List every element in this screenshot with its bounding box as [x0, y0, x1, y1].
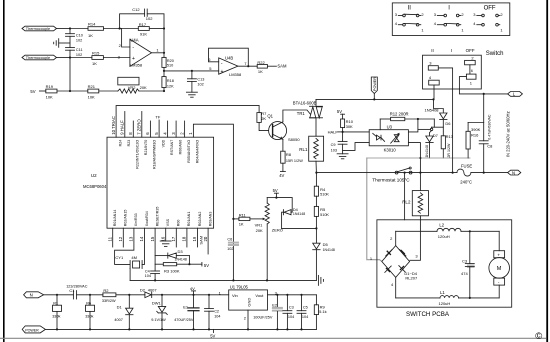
- svg-text:R11: R11: [239, 212, 247, 217]
- capacitor C4 104: [145, 270, 160, 282]
- svg-text:R01/AN1: R01/AN1: [187, 212, 191, 227]
- POWER rail: [46, 328, 317, 330]
- svg-text:R3 100K: R3 100K: [164, 269, 180, 274]
- svg-text:OFF: OFF: [484, 6, 496, 12]
- svg-text:K3010: K3010: [384, 147, 397, 152]
- svg-text:R06/AN6: R06/AN6: [178, 140, 182, 155]
- svg-text:C6: C6: [227, 237, 232, 241]
- capacitor E2 100UF/25V (grayed): [253, 295, 282, 330]
- svg-text:13: 13: [129, 236, 134, 241]
- svg-text:240°C: 240°C: [460, 179, 472, 184]
- ground (sideways, between C10 and C11): [54, 39, 70, 48]
- connector POWER (vertical flag): [371, 77, 377, 100]
- triac TR1 BTA16-600B: [293, 99, 323, 136]
- regulator U1 79L05: [219, 284, 278, 310]
- svg-text:15R 1/2W: 15R 1/2W: [286, 159, 303, 163]
- thermostat rail left: [316, 172, 457, 174]
- mains rail to C1: [44, 294, 74, 296]
- wire U4B feedback loop: [209, 48, 249, 66]
- svg-text:D7: D7: [433, 133, 439, 138]
- svg-text:C8: C8: [487, 144, 493, 149]
- pin 19 stub: [197, 228, 199, 247]
- relay coil RL1: [299, 136, 323, 161]
- svg-text:R00: R00: [177, 220, 181, 227]
- switch position table box: [392, 3, 510, 36]
- svg-text:5V: 5V: [337, 109, 342, 114]
- pin 2 stub: [184, 121, 186, 137]
- svg-text:120uH: 120uH: [439, 301, 451, 306]
- svg-text:510K: 510K: [320, 213, 329, 217]
- svg-text:CY1: CY1: [115, 255, 124, 260]
- transistor Q1 S8050: [267, 114, 300, 142]
- svg-text:C13: C13: [197, 78, 204, 82]
- svg-text:R01/AN14: R01/AN14: [113, 210, 117, 227]
- svg-text:R16: R16: [471, 133, 479, 138]
- pin 9 HALF stub: [124, 112, 126, 138]
- svg-text:104: 104: [288, 315, 294, 319]
- capacitor C1 123/280VAC: [66, 284, 103, 299]
- svg-text:C12: C12: [132, 7, 140, 12]
- svg-text:DW1: DW1: [152, 301, 162, 306]
- svg-text:+: +: [132, 56, 135, 62]
- ground (C13): [186, 92, 197, 97]
- pin 11 stub: [112, 228, 114, 247]
- svg-text:11: 11: [107, 236, 112, 241]
- svg-text:RL1: RL1: [299, 147, 308, 152]
- svg-text:R15: R15: [92, 50, 100, 55]
- svg-text:R5: R5: [320, 207, 326, 212]
- svg-text:1K: 1K: [258, 69, 263, 74]
- svg-text:R23: R23: [127, 140, 131, 147]
- svg-text:MC68P0604: MC68P0604: [83, 184, 107, 189]
- capacitor C8 0.47uF/630VAC: [479, 93, 493, 174]
- svg-text:R18/AN9/PWM1O: R18/AN9/PWM1O: [153, 140, 157, 169]
- wire switch feed into PCBA: [404, 173, 406, 220]
- svg-text:17: 17: [171, 236, 176, 241]
- page right border line: [546, 0, 548, 342]
- relay coil RL2: [402, 158, 428, 216]
- svg-text:103: 103: [331, 148, 337, 152]
- net label HALF: [328, 129, 343, 134]
- switch contact 2: [465, 56, 476, 74]
- capacitor C12 (feedback): [120, 7, 164, 53]
- U3 internal LED: [373, 133, 385, 141]
- resistor R22: [257, 60, 276, 74]
- svg-text:12: 12: [118, 236, 123, 241]
- svg-text:104: 104: [214, 314, 220, 318]
- svg-text:10K: 10K: [88, 94, 95, 99]
- svg-text:9.1V/1W: 9.1V/1W: [151, 318, 166, 322]
- svg-text:18: 18: [182, 236, 187, 241]
- svg-text:10K: 10K: [46, 94, 53, 99]
- capacitor C11: [66, 48, 83, 58]
- svg-text:1N4148: 1N4148: [293, 212, 305, 216]
- net label 5V (divider): [30, 89, 45, 94]
- svg-text:1K: 1K: [92, 61, 97, 66]
- svg-text:II: II: [408, 6, 412, 12]
- pin number labels top row: [111, 116, 193, 135]
- svg-text:SAM: SAM: [277, 63, 287, 68]
- svg-text:102: 102: [76, 38, 82, 42]
- svg-text:Q1: Q1: [267, 114, 273, 119]
- svg-text:16: 16: [160, 236, 165, 241]
- svg-text:R22: R22: [257, 60, 265, 65]
- svg-text:E2: E2: [272, 303, 278, 308]
- svg-text:R24: R24: [118, 140, 122, 147]
- pin 10 TRIAC wire to R7: [116, 106, 259, 138]
- svg-text:510K: 510K: [320, 193, 329, 197]
- svg-text:5.1k: 5.1k: [319, 309, 327, 314]
- diode D1 4007: [114, 295, 133, 330]
- net label ZERO wire: [272, 227, 318, 232]
- svg-text:0.47uF/630VAC: 0.47uF/630VAC: [488, 114, 492, 140]
- PCBA top rail: [396, 230, 500, 232]
- resistor R14: [70, 21, 120, 37]
- wire node down to 5V divider rail: [69, 58, 71, 92]
- wire R12 right bend: [433, 119, 435, 127]
- capacitor C2 104: [205, 295, 221, 330]
- wire Q1 collector to TR1 gate: [283, 110, 311, 122]
- svg-text:R02/AN2: R02/AN2: [198, 212, 202, 227]
- svg-text:U2: U2: [91, 173, 97, 178]
- pin 17 stub: [175, 228, 177, 247]
- bridge rectifier D1~D4 RL207: [370, 236, 419, 287]
- svg-text:N: N: [512, 170, 515, 175]
- main top AC rail: [316, 98, 435, 100]
- crystal CY1 4M: [115, 255, 142, 281]
- resistor R20: [162, 53, 174, 72]
- Vout rail: [268, 294, 317, 296]
- svg-text:D3: D3: [178, 249, 184, 254]
- switch contact 4: [429, 75, 440, 100]
- U3 pin2 wire to ground: [343, 143, 370, 151]
- svg-text:5V: 5V: [210, 334, 215, 339]
- zener DW1 9.1V/1W: [151, 295, 167, 330]
- connector L: [508, 92, 523, 97]
- connector J? Thermocouple 1: [22, 26, 57, 31]
- svg-text:102: 102: [227, 247, 233, 251]
- svg-text:102: 102: [76, 53, 82, 57]
- svg-text:7 ZERO: 7 ZERO: [137, 119, 142, 135]
- svg-text:C2: C2: [214, 310, 219, 314]
- wire bridge minus riser: [395, 277, 397, 298]
- svg-text:HALF: HALF: [328, 129, 339, 134]
- resistor R8 15R 1/2W: [281, 139, 303, 171]
- svg-text:©: ©: [535, 331, 542, 342]
- pin number labels bottom row: [107, 236, 207, 241]
- wire RL1 to thermostat rail: [315, 161, 317, 174]
- svg-text:R02/AN15: R02/AN15: [124, 210, 128, 227]
- svg-text:R05/AN5/TXO: R05/AN5/TXO: [187, 140, 191, 163]
- svg-text:Xout/R34: Xout/R34: [145, 211, 149, 226]
- resistor R12 200R: [380, 112, 434, 130]
- node junction: [69, 56, 71, 58]
- wire thermocouple1 to node: [57, 28, 71, 30]
- svg-text:FUSE: FUSE: [461, 164, 472, 169]
- svg-text:20K: 20K: [140, 85, 147, 90]
- capacitor C3 474 (grayed): [461, 231, 475, 298]
- svg-text:470UF/25V: 470UF/25V: [174, 318, 194, 322]
- node R11 tap: [232, 218, 234, 220]
- wire U4A output: [152, 47, 166, 54]
- U1 GND lead: [244, 310, 248, 329]
- svg-text:POWER: POWER: [373, 77, 377, 91]
- svg-text:RESET/R35: RESET/R35: [155, 207, 159, 227]
- svg-text:Thermocouple: Thermocouple: [26, 27, 50, 31]
- svg-text:BTA16-600B: BTA16-600B: [293, 100, 317, 105]
- fuse FUSE 240C: [457, 164, 472, 185]
- op-amp U4A LM358: [118, 38, 152, 68]
- svg-text:D2: D2: [140, 287, 146, 292]
- motor M: [489, 231, 510, 298]
- svg-text:R03/AN3: R03/AN3: [208, 212, 212, 227]
- svg-text:C5: C5: [303, 306, 308, 310]
- svg-text:II: II: [431, 48, 434, 53]
- svg-text:2R 1/2W: 2R 1/2W: [447, 143, 451, 158]
- svg-text:9 HALF: 9 HALF: [120, 120, 125, 135]
- ground (sideways, right end of mid rail): [318, 275, 323, 285]
- U3 pin4 wire up to R12: [408, 118, 419, 132]
- svg-text:ZERO: ZERO: [272, 228, 283, 233]
- gray feed wire to bridge terminal 1: [367, 158, 382, 261]
- svg-text:Thermocouple: Thermocouple: [26, 56, 50, 60]
- resistor R16 390K: [466, 123, 484, 159]
- svg-text:330k: 330k: [52, 314, 60, 318]
- svg-text:2K: 2K: [261, 116, 266, 121]
- AC common rail (gray): [367, 157, 470, 159]
- svg-text:102: 102: [146, 16, 153, 21]
- net label 4V (supply): [190, 286, 196, 295]
- resistor R18: [162, 71, 174, 92]
- svg-text:Switch: Switch: [486, 51, 504, 57]
- pin 12 stub: [122, 228, 124, 247]
- svg-text:Vout: Vout: [255, 293, 264, 298]
- svg-text:C1: C1: [69, 288, 75, 293]
- svg-text:4V: 4V: [190, 286, 195, 291]
- svg-text:VR1: VR1: [255, 223, 264, 228]
- diode D7 1N4148: [425, 131, 439, 158]
- table I contacts 3-2 (open): [434, 12, 465, 17]
- wire bridge plus riser: [395, 231, 397, 245]
- svg-text:C9: C9: [331, 143, 336, 147]
- svg-text:120uH: 120uH: [438, 234, 450, 239]
- net label 5V (opto pullup): [337, 109, 345, 119]
- table I contacts 4-1 (closed): [434, 21, 465, 33]
- svg-text:123/280VAC: 123/280VAC: [66, 284, 88, 288]
- svg-text:R8: R8: [286, 152, 292, 157]
- svg-text:R04/AN4/RXO: R04/AN4/RXO: [196, 140, 200, 164]
- svg-text:R22/INT1/OSC2O: R22/INT1/OSC2O: [136, 140, 140, 169]
- table OFF contacts 4-1 (open): [473, 21, 503, 33]
- pin 14 wire to crystal: [142, 228, 144, 264]
- svg-text:R12 200R: R12 200R: [390, 112, 409, 117]
- svg-text:19: 19: [192, 236, 197, 241]
- svg-text:10 TRIAC: 10 TRIAC: [111, 116, 116, 135]
- pin function labels inside top: [118, 139, 199, 169]
- connector POWER (bottom): [22, 326, 45, 333]
- svg-text:R6: R6: [86, 301, 91, 305]
- svg-text:12K: 12K: [167, 85, 174, 89]
- svg-text:U4A: U4A: [130, 38, 138, 43]
- table II contacts 4-1 (closed): [395, 21, 425, 33]
- pin 7 ZERO stub: [141, 112, 143, 138]
- pin 4 stub: [167, 121, 169, 137]
- svg-text:L1: L1: [440, 290, 445, 295]
- resistor R10 30K: [341, 119, 354, 133]
- svg-text:D5: D5: [323, 242, 329, 247]
- svg-text:100UF/25V: 100UF/25V: [253, 315, 273, 319]
- svg-text:U3: U3: [387, 124, 393, 129]
- table OFF contacts 3-2 (open): [473, 12, 503, 17]
- svg-text:RST/AN7: RST/AN7: [170, 140, 174, 155]
- svg-text:5V: 5V: [273, 188, 278, 193]
- capacitor C13: [187, 70, 204, 92]
- page bottom rule: [0, 337, 546, 339]
- svg-text:+: +: [221, 69, 224, 75]
- svg-text:R21/INT0: R21/INT0: [144, 140, 148, 155]
- U3 pin3 wire down to AC common rail: [408, 143, 421, 159]
- svg-text:390K: 390K: [471, 127, 481, 132]
- net label 5V (zero-cross): [267, 188, 278, 199]
- PCBA bottom rail: [396, 297, 500, 299]
- svg-text:R21: R21: [88, 84, 96, 89]
- svg-text:RL207: RL207: [405, 275, 418, 280]
- svg-text:4M: 4M: [131, 255, 137, 260]
- table II contacts 3-2 (closed): [395, 12, 425, 17]
- svg-text:104: 104: [302, 315, 308, 319]
- connector N (bottom left): [24, 292, 44, 298]
- resistor R19: [46, 84, 88, 99]
- svg-text:R20: R20: [167, 59, 174, 63]
- svg-text:L2: L2: [439, 222, 444, 227]
- potentiometer VR1 20K: [255, 198, 270, 281]
- net label 4V (R8): [279, 171, 285, 178]
- potentiometer VR2 20K: [118, 77, 164, 93]
- svg-text:6: 6: [471, 69, 473, 73]
- diode D6 1N5408: [425, 99, 452, 130]
- inductor L2 120uH: [437, 222, 461, 238]
- U3 internal phototriac: [391, 133, 400, 144]
- svg-text:RL2: RL2: [402, 199, 411, 204]
- pin 6 stub: [149, 121, 151, 137]
- wire RL2 to bridge terminal 3: [410, 216, 421, 260]
- svg-text:1N4148: 1N4148: [323, 248, 335, 252]
- resistor R21: [88, 84, 118, 99]
- wire D6 node to R12 node: [418, 128, 431, 130]
- svg-text:TR1: TR1: [297, 111, 306, 116]
- svg-text:1K: 1K: [88, 33, 93, 38]
- svg-text:LM358: LM358: [130, 63, 143, 68]
- connector N (right): [508, 170, 521, 175]
- capacitor C10: [66, 29, 83, 48]
- svg-text:510: 510: [167, 64, 173, 68]
- svg-text:Vin: Vin: [232, 293, 238, 298]
- wire U4B output: [238, 61, 257, 67]
- pin 15 RESET column: [154, 228, 156, 271]
- svg-text:R19: R19: [46, 84, 54, 89]
- svg-text:VR2: VR2: [128, 85, 137, 90]
- thermostat rail right: [404, 172, 454, 174]
- wire to opto pin1: [343, 131, 370, 133]
- resistor R4 510K: [314, 173, 329, 197]
- svg-text:IN 220-240V ac 50/60Hz: IN 220-240V ac 50/60Hz: [506, 111, 511, 157]
- optocoupler U3 K3010: [369, 124, 408, 152]
- wire thermocouple2: [57, 57, 71, 59]
- svg-text:102: 102: [197, 82, 203, 86]
- capacitor C5 104: [297, 295, 308, 330]
- svg-text:POWER: POWER: [25, 328, 39, 332]
- svg-text:C11: C11: [76, 48, 83, 52]
- svg-text:C4: C4: [145, 270, 150, 274]
- svg-text:20: 20: [203, 236, 208, 241]
- resistor R9 5.1k: [314, 295, 326, 330]
- ground (C9): [337, 154, 348, 159]
- pin 3 stub: [175, 121, 177, 137]
- svg-text:91K: 91K: [140, 32, 147, 37]
- svg-text:330k: 330k: [85, 314, 93, 318]
- diode D2 4007: [140, 287, 229, 297]
- pin 1 wire to C6 column: [193, 124, 233, 280]
- svg-text:474: 474: [461, 271, 468, 276]
- svg-text:33R/2W: 33R/2W: [102, 299, 116, 303]
- svg-text:I: I: [451, 48, 452, 53]
- capacitor C3. 104 (supply): [283, 295, 294, 330]
- svg-text:4007: 4007: [148, 287, 158, 292]
- svg-text:R2: R2: [103, 288, 109, 293]
- svg-text:VDD: VDD: [161, 139, 165, 147]
- capacitor C6 102 (grayed): [227, 237, 238, 251]
- svg-text:U1 79L05: U1 79L05: [230, 284, 249, 289]
- svg-text:D1: D1: [117, 304, 123, 309]
- resistor R1 330k: [52, 295, 61, 330]
- pin 18 stub: [186, 228, 188, 247]
- resistor R5 510K: [314, 196, 329, 228]
- svg-text:4V: 4V: [279, 173, 284, 178]
- thermostat 105C switch: [372, 167, 412, 183]
- mid ground rail: [130, 279, 316, 281]
- diode D5 1N4148: [313, 228, 335, 280]
- svg-text:R14: R14: [88, 21, 96, 26]
- svg-text:1K: 1K: [239, 221, 244, 226]
- resistor R6 330k: [85, 295, 94, 330]
- net label 5V (power rail): [210, 329, 215, 338]
- resistor R3 100K: [155, 263, 202, 274]
- resistor R7 2K: [257, 106, 269, 131]
- svg-text:E1: E1: [183, 305, 189, 310]
- switch S1 box: [423, 48, 504, 89]
- svg-text:M: M: [497, 266, 502, 272]
- resistor R15: [70, 50, 130, 66]
- resistor R13 2R 1/2W: [441, 127, 454, 158]
- net label 5V (reset): [202, 262, 209, 267]
- inductor L1 120uH: [439, 290, 459, 306]
- switch contact 1: [459, 74, 507, 94]
- svg-text:C3: C3: [462, 258, 468, 263]
- svg-text:GND: GND: [246, 298, 251, 307]
- IC U2 MC68P0604 body: [83, 137, 214, 228]
- svg-text:1N4148: 1N4148: [175, 257, 187, 261]
- pin 20 SAM stub: [199, 228, 208, 254]
- capacitor E1 470UF/25V: [174, 295, 199, 330]
- wire fuse to N: [471, 172, 508, 174]
- resistor R2 33R/2W: [102, 288, 145, 303]
- node junction: [69, 27, 71, 29]
- svg-text:14: 14: [139, 236, 144, 241]
- pin 5 TF stub: [155, 115, 160, 138]
- svg-text:N: N: [30, 293, 33, 298]
- resistor R17 (feedback): [120, 22, 165, 37]
- switch contact 3: [428, 60, 452, 172]
